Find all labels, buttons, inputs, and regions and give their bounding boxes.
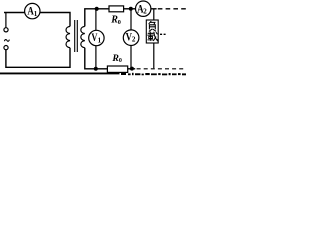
svg-text:2: 2 <box>132 36 136 44</box>
svg-text:2: 2 <box>143 8 147 16</box>
svg-text:1: 1 <box>98 36 102 44</box>
svg-text:0: 0 <box>118 19 121 26</box>
svg-text:0: 0 <box>119 58 122 64</box>
svg-text:1: 1 <box>34 10 38 18</box>
